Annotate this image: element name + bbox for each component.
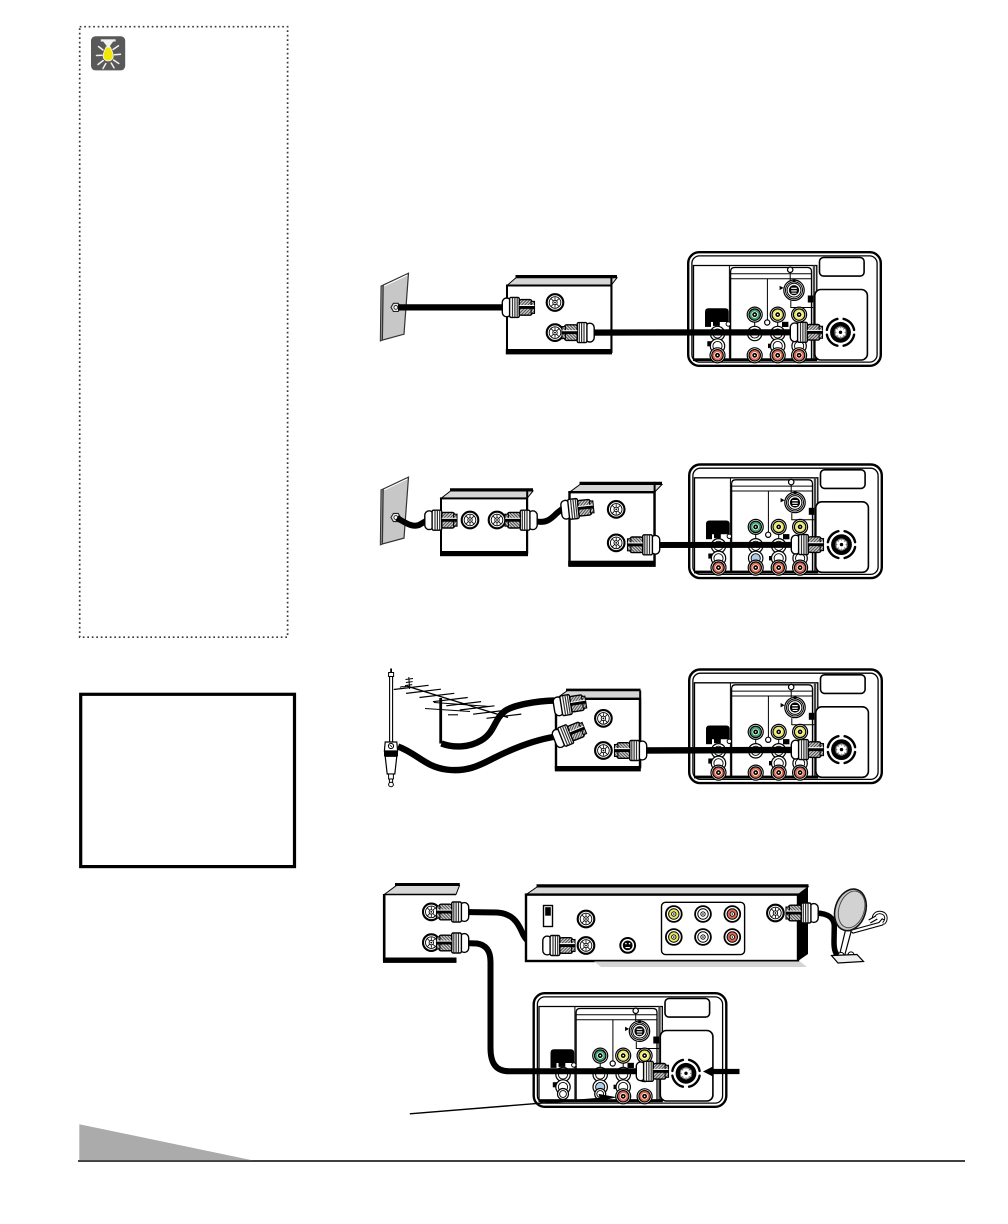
- tip lightbulb icon: [91, 36, 125, 70]
- satellite receiver jacks: [578, 911, 595, 928]
- F-connector into cable box 2: [425, 510, 457, 530]
- satellite receiver: [526, 886, 809, 967]
- TV back panel 4: [534, 993, 727, 1107]
- coax cable VCR 4 to TV 4: [462, 943, 641, 1071]
- VCR 4 jacks: [423, 904, 440, 921]
- coax cable satellite receiver to dish: [816, 913, 839, 957]
- coax cable VCR 4 to satellite receiver: [462, 912, 544, 946]
- satellite receiver S-video jack: [620, 938, 635, 953]
- F-connector out of VCR 3: [615, 741, 647, 761]
- VCR 2 jacks: [608, 501, 625, 518]
- VCR 3 jacks: [595, 710, 612, 727]
- TV 4 audio jacks: [616, 1089, 652, 1104]
- F-connector out of cable box 2: [505, 510, 537, 530]
- F-connector into VCR 3: [552, 692, 587, 717]
- TV 1 red jacks: [710, 348, 807, 363]
- coax cable wall to cable box: [398, 304, 504, 310]
- F-connector into cable box 1: [502, 297, 534, 317]
- VCR 2: [568, 482, 662, 566]
- wall jack plate 1: [380, 273, 408, 341]
- F-connector into TV 2: [791, 535, 823, 555]
- VCR 4: [383, 884, 460, 963]
- cable box 2: [440, 490, 533, 557]
- coax cable cable box 2 to VCR 2: [535, 508, 564, 522]
- VCR 3: [555, 690, 641, 772]
- coax cable rooftop antenna to VCR 3: [441, 701, 554, 747]
- wall jack plate 2: [380, 477, 408, 545]
- TV back panel 2: [689, 465, 882, 579]
- F-connectors out of VCR 4: [437, 902, 469, 922]
- cable box 1 jacks: [547, 294, 564, 311]
- satellite receiver switch: [544, 906, 553, 927]
- TV back panel 3: [689, 670, 882, 784]
- satellite receiver AV jack block: [662, 902, 745, 954]
- arrow to audio jack: [410, 1098, 601, 1114]
- note box: [81, 694, 295, 866]
- satellite dish: [829, 885, 886, 963]
- dotted tip box: [80, 27, 288, 638]
- coax cable rod antenna to adapter: [398, 737, 556, 771]
- footer gray triangle: [79, 1124, 252, 1160]
- F-connector out of satellite receiver: [786, 903, 818, 923]
- antenna adapter connector: [551, 719, 588, 750]
- coax cable wall to cable box 2: [397, 518, 426, 526]
- rooftop antenna: [394, 677, 522, 744]
- F-connector out of cable box 1: [562, 323, 594, 343]
- coax cable VCR 2 to TV 2: [650, 542, 795, 548]
- cable box 2 jacks: [462, 512, 479, 529]
- F-connector into VCR 2: [560, 497, 594, 520]
- coax cable cable box to TV 1: [586, 329, 795, 336]
- TV 3 red jacks: [711, 765, 808, 780]
- TV back panel 1: [688, 252, 881, 366]
- footer rule: [78, 1160, 965, 1162]
- F-connector into TV 3: [791, 740, 823, 760]
- F-connector into TV 1: [790, 322, 822, 342]
- rod antenna: [384, 669, 398, 787]
- F-connector out of VCR 2: [628, 535, 660, 555]
- coax cable VCR 3 to TV 3: [637, 747, 795, 754]
- F-connector into TV 4: [636, 1061, 668, 1081]
- F-connector into satellite receiver: [543, 936, 575, 956]
- TV 2 red jacks: [711, 560, 808, 575]
- arrow to antenna input: [703, 1066, 740, 1076]
- cable box 1: [506, 276, 617, 354]
